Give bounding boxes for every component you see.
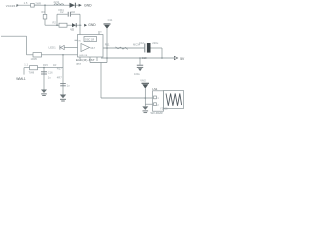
wire pin2 row bbox=[145, 103, 152, 105]
wire output row B bbox=[101, 57, 174, 59]
op-amp U1 comparator triangle bbox=[81, 44, 90, 52]
diode D3 bbox=[60, 45, 65, 49]
svg-text:OSC 1R: OSC 1R bbox=[85, 38, 95, 41]
svg-text:220u: 220u bbox=[152, 41, 158, 45]
capacitor C16 bbox=[41, 72, 47, 74]
wire C16 branch bbox=[43, 68, 45, 90]
pin 8 stub bbox=[98, 31, 100, 35]
capacitor C2 bbox=[68, 12, 70, 17]
wire ground branch main bbox=[62, 55, 64, 95]
svg-text:Y2008: Y2008 bbox=[160, 106, 168, 110]
wire left input bbox=[1, 35, 27, 37]
svg-text:VD: VD bbox=[70, 28, 74, 32]
wire cap branch right bbox=[79, 14, 81, 25]
wire left vertical bbox=[26, 36, 28, 55]
svg-text:GND: GND bbox=[88, 23, 96, 27]
resistor R15 bbox=[30, 66, 38, 70]
svg-text:1R: 1R bbox=[53, 63, 56, 67]
wire pin4 to vertical bbox=[90, 62, 107, 64]
pin 3 stub bbox=[79, 57, 81, 61]
svg-text:2211: 2211 bbox=[54, 0, 60, 4]
svg-text:C16: C16 bbox=[48, 71, 53, 75]
resistor R11 squiggle bbox=[116, 47, 128, 50]
wire cap branch left bbox=[56, 14, 58, 25]
svg-text:VCC15.0: VCC15.0 bbox=[6, 4, 18, 8]
node junction B3 bbox=[139, 57, 141, 59]
ground C10 bbox=[138, 68, 142, 71]
connector pin square 2 bbox=[154, 103, 157, 106]
resistor R2 bbox=[59, 23, 67, 27]
svg-text:1R05: 1R05 bbox=[31, 57, 38, 61]
wire jog up bbox=[106, 58, 108, 63]
pin IN stub bbox=[75, 39, 78, 41]
port arrow 5V bbox=[174, 56, 177, 59]
wire bottom-left row bbox=[24, 67, 63, 69]
svg-text:C2: C2 bbox=[60, 10, 64, 14]
diode D2 bbox=[72, 23, 77, 27]
port arrow GND bbox=[84, 24, 87, 27]
wire long vertical to speaker bbox=[100, 63, 102, 99]
svg-text:C10: C10 bbox=[142, 56, 147, 60]
svg-text:R2: R2 bbox=[53, 21, 57, 25]
pin 4 wire down bbox=[89, 57, 91, 63]
wire lower input row bbox=[27, 54, 78, 56]
svg-text:WML1: WML1 bbox=[16, 77, 26, 81]
speaker box bbox=[164, 91, 184, 109]
ground C16 bbox=[41, 90, 47, 96]
speaker coil zigzag bbox=[166, 94, 182, 106]
svg-text:100u: 100u bbox=[134, 72, 140, 76]
wire corner down bbox=[161, 48, 163, 58]
svg-text:4R7: 4R7 bbox=[57, 75, 62, 79]
node junction feedback bbox=[79, 24, 81, 26]
U1 OSC block bbox=[84, 37, 97, 42]
node junction lower row bbox=[62, 54, 64, 56]
wire vertical from top rail bbox=[44, 5, 46, 25]
ground main bbox=[60, 95, 66, 102]
svg-text:TW8: TW8 bbox=[29, 71, 35, 75]
svg-text:MLT: MLT bbox=[91, 47, 96, 50]
node junction bottom-left bbox=[43, 67, 45, 69]
power bar symbol bbox=[104, 24, 111, 29]
connector LS1 box bbox=[153, 91, 164, 111]
wire cap branch top bbox=[57, 13, 80, 15]
svg-text:1.5: 1.5 bbox=[24, 1, 28, 5]
op-amp U1 box bbox=[78, 35, 104, 58]
wire top rail bbox=[17, 4, 82, 6]
wire power bar down bbox=[106, 29, 108, 58]
wire VM2 down bbox=[144, 89, 146, 107]
svg-text:LS1: LS1 bbox=[152, 87, 157, 91]
wire D3 to U1 bbox=[64, 47, 77, 49]
connector pin square 1 bbox=[154, 96, 157, 99]
svg-text:C12: C12 bbox=[139, 41, 144, 45]
wire feedback row bbox=[45, 24, 82, 26]
svg-text:LED1: LED1 bbox=[49, 45, 57, 49]
node junction B1 bbox=[106, 57, 108, 59]
node junction speaker bbox=[145, 97, 147, 99]
svg-text:B5T: B5T bbox=[77, 63, 82, 66]
svg-text:ELC(M)-8ST: ELC(M)-8ST bbox=[76, 58, 95, 62]
node junction A1 bbox=[106, 47, 108, 49]
node junction top bbox=[44, 4, 46, 6]
svg-text:R11: R11 bbox=[105, 42, 110, 46]
svg-text:VM2: VM2 bbox=[140, 79, 146, 83]
svg-text:WX-PA2R: WX-PA2R bbox=[151, 111, 163, 115]
svg-text:102: 102 bbox=[71, 10, 76, 14]
power flag VM2 bbox=[142, 83, 150, 88]
svg-text:2W8: 2W8 bbox=[35, 1, 41, 5]
capacitor C15 bbox=[60, 84, 66, 86]
svg-text:C11: C11 bbox=[108, 18, 113, 22]
capacitor C10 bbox=[137, 65, 143, 67]
svg-text:GND: GND bbox=[84, 4, 92, 8]
resistor R3 bbox=[43, 14, 47, 19]
svg-text:GND FB: GND FB bbox=[79, 55, 88, 57]
inductor L1 bbox=[54, 4, 64, 5]
wire C12 to corner bbox=[151, 47, 163, 49]
svg-text:R15: R15 bbox=[43, 63, 48, 67]
diode D1 bbox=[70, 3, 76, 8]
wire U1 out row A bbox=[103, 47, 144, 49]
wire pin to U1 top bbox=[79, 25, 81, 34]
svg-text:1.1: 1.1 bbox=[24, 63, 28, 67]
wire C10 down bbox=[139, 58, 141, 65]
wire bottom row to speaker bbox=[101, 97, 153, 99]
port WML1 stub bbox=[23, 68, 25, 75]
inductor L2 bbox=[33, 53, 42, 57]
ground speaker bbox=[142, 106, 148, 112]
node junction B2 bbox=[161, 57, 163, 59]
capacitor C12 bbox=[144, 43, 150, 53]
port tick VIN bbox=[17, 4, 19, 7]
node junction cap branch bbox=[56, 24, 58, 26]
fuse F1 bbox=[31, 3, 35, 7]
svg-text:R17: R17 bbox=[57, 66, 62, 70]
port arrow 24V bbox=[79, 4, 82, 7]
pin 5 stub bbox=[96, 57, 98, 61]
